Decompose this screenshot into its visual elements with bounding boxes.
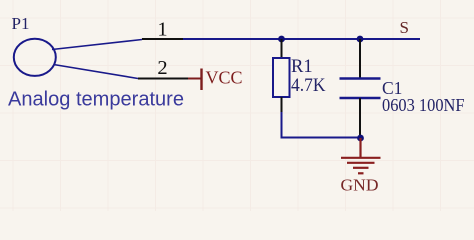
resistor R1 <box>273 39 290 112</box>
svg-text:GND: GND <box>341 176 379 195</box>
designator C1 <box>382 78 402 98</box>
connector P1 body <box>14 39 56 76</box>
GND label <box>341 176 379 195</box>
svg-text:Analog temperature: Analog temperature <box>8 89 184 111</box>
svg-text:P1: P1 <box>12 14 30 33</box>
label Analog temperature <box>8 89 184 111</box>
ground GND <box>341 138 381 173</box>
capacitor C1 <box>340 39 381 138</box>
VCC label <box>206 67 243 87</box>
designator P1 <box>12 14 30 33</box>
junction (C1 / top wire) <box>357 36 364 43</box>
wire (to pin 1) <box>52 40 142 50</box>
pin number 2 <box>157 57 167 79</box>
designator R1 <box>291 57 313 77</box>
svg-text:VCC: VCC <box>206 67 243 87</box>
value 4.7K <box>291 76 326 96</box>
svg-text:R1: R1 <box>291 57 313 77</box>
net label S <box>400 18 409 37</box>
svg-text:2: 2 <box>157 57 167 79</box>
svg-text:1: 1 <box>157 19 167 41</box>
power port VCC <box>188 69 202 91</box>
pin 2 <box>138 78 190 80</box>
value 0603 100NF <box>382 95 465 115</box>
junction (bottom wire / ground) <box>357 135 364 142</box>
junction (R1 / top wire) <box>278 36 285 43</box>
svg-text:0603 100NF: 0603 100NF <box>382 95 465 115</box>
wire (to pin 2) <box>54 65 139 79</box>
pin 1 <box>142 38 183 40</box>
pin number 1 <box>157 19 167 41</box>
wire (bottom horizontal) <box>282 112 361 138</box>
wire (top horizontal net S) <box>183 38 420 40</box>
svg-text:S: S <box>400 18 409 37</box>
svg-text:4.7K: 4.7K <box>291 76 326 96</box>
